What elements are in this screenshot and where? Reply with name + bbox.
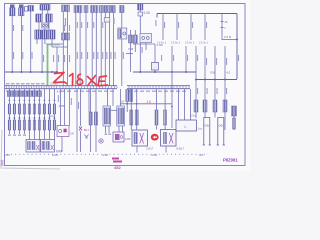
svg-text:X58: X58 [128,47,134,51]
svg-text:1.5: 1.5 [147,100,152,104]
connector X1 [10,5,16,16]
connector X10 [120,6,125,13]
svg-text:OBn: OBn [218,124,224,128]
fuse mark col 80.5 [79,89,82,152]
injector column 2 [13,89,15,134]
component box with terminals [140,34,152,43]
heater box E2 [161,130,177,147]
glow feed bars E2 [155,110,167,125]
relay K on X10 wire [118,28,127,39]
wire X5 down [63,12,67,87]
junction dot 172-106 [171,106,173,108]
junction dots mid-right bus [139,71,187,73]
svg-text:2.5 B: 2.5 B [224,35,231,39]
injector column 10 [53,89,55,140]
wires above valve boxes [108,89,121,106]
wire col 215 upper [214,46,216,80]
arrow marks [85,135,89,139]
wire cluster horizontal a [46,44,68,47]
wire col 155 with inline sensor [152,44,159,72]
shielded pair loop 1 [203,118,211,146]
connector X5 pair [62,5,70,12]
wire from X1 [11,16,13,72]
sensor bar pair G1 [89,112,98,125]
svg-text:24: 24 [121,100,125,104]
ignition coil block right [46,14,52,22]
heater box E1 [132,130,148,146]
lambda wire col 196 [194,80,198,119]
svg-text:452: 452 [114,165,121,170]
lambda wire col 205 [203,80,207,113]
wire label col 140 [142,47,143,53]
inline fuse on X11 wire [138,12,143,16]
wire pin5 to ECU right edge [222,39,237,41]
wire from X2 [20,16,22,72]
wire col 225 upper [224,46,226,80]
wire col 64.5 [64,89,66,126]
lambda wire col 215 [213,80,217,113]
ECU pin wire 3 [190,14,192,41]
wire from X7 [85,13,87,87]
junction dot pin5 [236,39,238,41]
branch wire y44 [133,43,155,45]
wire size labels left column [13,52,124,62]
wire from X3 [30,11,32,72]
wires from X9 [101,13,113,87]
wire cluster down a [37,39,57,72]
wire label 45B [58,95,59,102]
valve box P1 [103,106,111,126]
labels below P1 [105,134,111,135]
ignition module connector strip [35,30,55,39]
coil middle box with terminals [42,23,48,28]
terminal strip right part [127,86,190,89]
junction dot node [126,103,128,105]
wires from strip to E2 bars [157,89,166,130]
wire from pair to node [126,102,128,113]
shielded pair loop 2 [217,118,225,146]
connector X5b pair [62,33,70,40]
svg-text:4.5B: 4.5B [59,104,65,108]
svg-text:•236: •236 [102,153,108,157]
injector column 8 [43,89,45,140]
svg-text:•24: •24 [199,153,204,157]
svg-text:13 Gn 1: 13 Gn 1 [199,41,209,45]
ECU box top edge [157,14,237,80]
horizontal link node line [121,103,173,105]
inline connector on X9 wire [104,18,110,23]
ignition switch box MI [57,126,69,137]
hatched pair left column [126,90,133,102]
svg-text:«: « [116,86,118,90]
heated screen element right [232,106,237,130]
terminal strip left part [5,86,117,89]
wire coil mid a [39,22,49,30]
wire label 1.0 [71,98,72,105]
wire from X10 [121,13,123,29]
red stamp oval with arrow [151,134,159,141]
sensor circle [99,139,103,143]
svg-text:B.B17: B.B17 [177,147,185,151]
branch stub y53.5 [126,53,133,55]
wire labels right columns [206,58,227,65]
lambda wire col 225 [223,80,227,113]
ignition coil block left [36,14,42,22]
border frame [5,4,246,166]
wire coil stub a [41,10,43,14]
connector X6 [74,6,82,13]
wire col 172 [171,46,173,72]
bus line right [196,79,237,81]
svg-text:10B: 10B [125,137,130,141]
connector X7 [84,6,88,13]
svg-text:4.5: 4.5 [226,71,231,75]
ECU box left stub [156,14,158,18]
wire col 69.5 [69,89,71,126]
junction dots left bus [11,71,58,73]
relay box K2 [41,140,55,153]
ECU pin wire 4 [204,14,206,41]
injector column 5 [28,89,30,140]
svg-text:5.08: 5.08 [144,11,150,15]
connector X11 [137,4,143,10]
label 10 between wires [78,102,79,109]
component cluster hatched pair [129,35,138,43]
svg-text:GBn: GBn [204,124,210,128]
connector X9 quad [100,6,116,13]
injector column 6 [33,89,35,140]
svg-text:2.B17: 2.B17 [146,147,154,151]
wire below relay K [121,39,123,86]
wire X11 down [139,10,141,33]
wire size labels top wires [13,18,239,94]
ECU pin wire 1 [162,14,164,41]
svg-text:•230: •230 [151,153,157,157]
junction dot node b [136,103,138,105]
wires from X6 [76,13,80,87]
svg-text:36: 36 [225,20,229,24]
magenta note a [112,158,122,163]
svg-text:B17: B17 [84,128,90,132]
stub labels under columns 1-4 [8,135,26,136]
svg-text:L: L [185,125,187,129]
connector X8 triple [91,6,99,13]
paper torn edge bottom-left [1,130,60,169]
pump box M [113,132,124,142]
pin labels above strip left [6,83,45,84]
handwritten Z 18 XE [54,73,108,86]
connector X2 [19,5,28,16]
relay box K1 [26,140,40,153]
magenta corner mark [1,160,4,166]
svg-text:0.5n: 0.5n [190,114,196,118]
stub below E2 [165,146,167,153]
wire below MI box [61,137,63,153]
bus line mid-right [133,71,196,73]
wire col 89 [88,89,90,112]
svg-text:X36: X36 [210,71,216,75]
throttle body box L [176,89,197,131]
wires from X8 [92,13,96,87]
connector X3 [28,6,34,12]
wires from strip to E1 bars [131,89,136,130]
glow feed bars E1 [130,110,138,125]
wire col 205 upper [204,46,206,80]
wires cluster to bus [131,30,147,72]
svg-text:MI: MI [71,132,74,136]
valve box P2 [117,106,125,126]
strip pin number smudges [6,91,186,92]
injector column 4 [23,89,25,134]
svg-text:P8Z081: P8Z081 [223,158,238,163]
ECU left label [155,20,156,26]
link between valve boxes [111,109,117,111]
svg-text:13 Gn 1: 13 Gn 1 [185,41,195,45]
svg-text:2.5B: 2.5B [157,43,163,47]
ECU pin wire 5 with inline contact [221,14,229,41]
wires below valve boxes [106,126,123,133]
injector column 9 [48,89,50,140]
svg-text:236: 236 [5,153,10,157]
ruler dotted line [7,153,208,155]
green horizontal mark [48,44,61,46]
wire col 186 [185,46,187,72]
wire col 77 [76,89,78,152]
injector column 3 [18,89,20,134]
connector row under strip [7,91,41,97]
connector X4 (coil top) [40,5,50,11]
svg-text:1xx: 1xx [198,127,203,131]
green highlighted wire [47,45,49,87]
wire col 196 [195,46,197,79]
junction dots right bus [195,79,226,81]
injector column 1 [8,89,10,134]
injector column 7 [38,89,40,140]
svg-text:13 Gn 1: 13 Gn 1 [171,41,181,45]
svg-text:•236: •236 [52,153,58,157]
wires below G1 [91,89,97,152]
stub wires into loops [205,112,225,130]
wire col 172 lower [171,72,173,128]
wire col 60.5 [60,89,62,126]
wire label between X5 pair [65,18,66,26]
svg-text:n: n [225,26,227,30]
ECU pin wire 2 [176,14,178,41]
wire coil stub b [47,10,49,14]
junction dots under connector row [9,99,56,101]
bus line left [5,71,58,73]
stub below E1 [136,146,138,153]
